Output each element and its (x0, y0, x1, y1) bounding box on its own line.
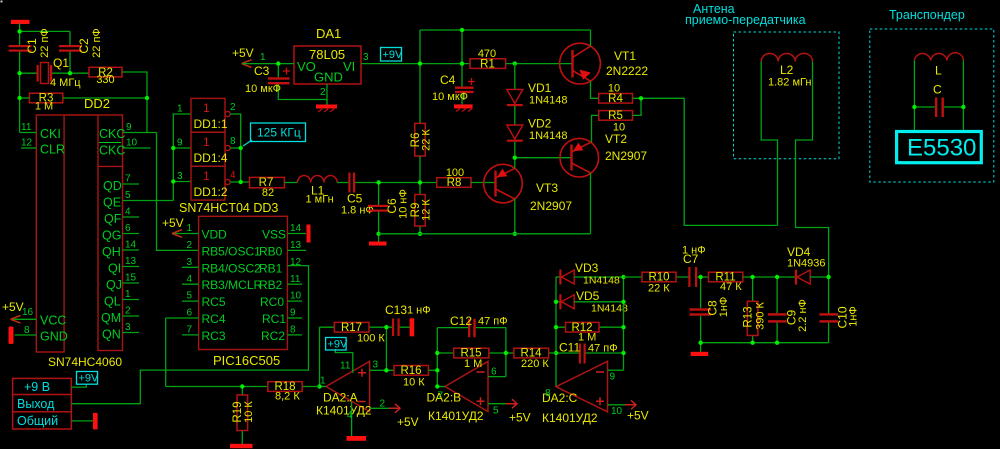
svg-text:6: 6 (187, 308, 193, 319)
svg-text:QI: QI (108, 262, 121, 276)
svg-text:22 К: 22 К (648, 283, 670, 295)
wire VT1 collector/emitter (591, 30, 599, 98)
net label +9V at DA2:A (326, 338, 348, 351)
op-amp DA2:C (542, 361, 608, 425)
resistor R18 (166, 381, 320, 402)
svg-text:SN74HCT04 DD3: SN74HCT04 DD3 (179, 201, 278, 215)
svg-text:VI: VI (343, 59, 355, 74)
wire connector common row to ground (71, 413, 97, 430)
resistor R2 (89, 67, 122, 86)
svg-text:125 КГц: 125 КГц (257, 126, 301, 140)
wire L1 to C5 (337, 182, 348, 184)
svg-text:1: 1 (260, 52, 266, 63)
svg-text:7: 7 (438, 391, 444, 402)
svg-text:1 мГн: 1 мГн (306, 194, 334, 206)
svg-text:QN: QN (102, 328, 121, 342)
capacitor C4 electrolytic (432, 64, 475, 105)
capacitor C2 (59, 28, 103, 58)
crystal Q1 (37, 56, 82, 89)
svg-text:2N2907: 2N2907 (605, 149, 647, 163)
resistor R1 (470, 48, 506, 70)
svg-text:VT3: VT3 (536, 181, 558, 195)
svg-text:13: 13 (290, 240, 302, 251)
DD2 pin QL 1 (104, 289, 139, 309)
transponder capacitor C (933, 83, 944, 118)
inverter DD1:4 (177, 132, 236, 166)
svg-text:15: 15 (125, 273, 137, 284)
net label +9V at connector (77, 372, 100, 385)
svg-text:3: 3 (187, 257, 193, 268)
connector X1 (13, 378, 72, 429)
svg-text:47 пФ: 47 пФ (478, 316, 508, 328)
svg-text:2: 2 (380, 399, 386, 410)
svg-text:10 К: 10 К (243, 401, 255, 423)
node DD1 output junctions (171, 146, 243, 184)
PIC pin 9 RC1 (262, 308, 302, 326)
PIC pin 8 RC2 (261, 325, 302, 343)
diode VD4 1N4936 (787, 245, 829, 285)
svg-text:QE: QE (103, 196, 121, 210)
wire connector +9V row (71, 384, 86, 387)
svg-text:Q1: Q1 (53, 56, 69, 70)
DA2:C pin 9 input (608, 370, 624, 382)
svg-text:8: 8 (545, 388, 551, 399)
svg-text:22 пФ: 22 пФ (39, 28, 51, 58)
svg-text:C: C (933, 83, 942, 97)
DD2 pin GND 8 with ground bar (9, 325, 68, 344)
svg-text:QH: QH (102, 245, 121, 259)
svg-text:DA2:A: DA2:A (323, 391, 358, 405)
DD2 pin QJ 15 (106, 273, 139, 293)
DD2 pin QG 6 (102, 223, 139, 243)
node R19 junction (240, 384, 244, 388)
svg-text:100 К: 100 К (357, 333, 385, 345)
chip E5530 (897, 132, 982, 163)
resistor R4 (599, 83, 633, 106)
transistor VT2 2N2907 (560, 132, 647, 177)
node C3 junction (276, 61, 280, 65)
svg-text:1: 1 (203, 135, 210, 149)
svg-text:C2: C2 (77, 38, 91, 54)
PIC pin 10 RC0 (260, 291, 302, 309)
svg-text:CLR: CLR (40, 143, 65, 157)
DA2:B pin 5 input with +5V (488, 399, 531, 424)
svg-text:PIC16C505: PIC16C505 (213, 353, 280, 368)
svg-text:R13: R13 (743, 306, 755, 327)
svg-text:C1: C1 (25, 38, 39, 54)
svg-text:RC1: RC1 (262, 312, 286, 326)
DD2 pin QF 4 (104, 207, 139, 227)
svg-text:К1401УД2: К1401УД2 (316, 404, 372, 418)
wire R2 to DD2 pin9 (122, 72, 147, 133)
wire crystal row (20, 72, 89, 74)
svg-text:9: 9 (290, 308, 296, 319)
svg-text:2: 2 (320, 87, 326, 98)
svg-text:VSS: VSS (262, 228, 286, 242)
svg-text:приемо-передатчика: приемо-передатчика (685, 13, 806, 27)
antenna dashed box (734, 32, 840, 159)
DA2:A pin 11 power (335, 349, 353, 373)
wire DA1 VI to +9V rail (361, 63, 470, 65)
svg-text:1.82 мГн: 1.82 мГн (768, 77, 811, 89)
svg-text:VD1: VD1 (528, 81, 552, 95)
ground C6 (369, 242, 387, 246)
svg-text:C13: C13 (385, 303, 407, 317)
svg-text:CKC: CKC (99, 127, 125, 141)
wire R7 to L1 (284, 182, 297, 184)
svg-text:SN74HC4060: SN74HC4060 (48, 355, 122, 369)
svg-text:VT2: VT2 (605, 132, 627, 146)
resistor R9 (410, 183, 433, 234)
wire detector bottom rail (701, 343, 829, 352)
svg-text:DA2:B: DA2:B (427, 391, 462, 405)
label antenna title (685, 2, 806, 27)
inverter DD1:1 (177, 98, 236, 132)
svg-text:4: 4 (187, 274, 193, 285)
capacitor C1 (9, 28, 51, 58)
svg-text:CKC: CKC (99, 144, 125, 158)
resistor R3 (29, 93, 62, 113)
transistor VT3 2N2907 (484, 164, 573, 213)
resistor R16 (394, 365, 428, 389)
svg-text:220 К: 220 К (521, 358, 549, 370)
svg-text:1: 1 (187, 223, 193, 234)
svg-text:4: 4 (230, 170, 236, 181)
svg-text:11: 11 (21, 122, 32, 133)
svg-text:9: 9 (610, 372, 616, 383)
wire DA2:B feedback rails (437, 328, 506, 387)
DD2 pin CKI 11 (20, 122, 61, 141)
resistor R17 (320, 322, 393, 345)
transistor VT1 2N2222 (560, 43, 649, 84)
PIC pin 2 RB5/OSC1 (187, 240, 262, 258)
IC DD3 PIC16C505 (199, 216, 288, 368)
svg-text:1 нФ: 1 нФ (407, 305, 431, 317)
PIC pin 6 RC4 (166, 308, 226, 326)
svg-text:1N4936: 1N4936 (787, 258, 826, 270)
svg-text:1: 1 (177, 104, 183, 115)
svg-text:5: 5 (125, 190, 131, 201)
svg-text:QD: QD (103, 179, 122, 193)
wire VT2 emitter/collector (591, 115, 599, 233)
inductor L1 (298, 175, 338, 205)
node transponder junctions (912, 105, 965, 109)
svg-text:10 К: 10 К (403, 377, 425, 389)
wire row to R8 (420, 182, 437, 184)
node DA2:B junctions (435, 351, 508, 389)
svg-text:VD2: VD2 (528, 117, 552, 131)
wire transponder loop (914, 61, 963, 132)
DA2:B pin 6 input (488, 367, 506, 378)
svg-text:1 нФ: 1 нФ (682, 245, 706, 257)
capacitor C12 (450, 314, 508, 337)
inverter DD1:2 (177, 166, 236, 200)
svg-text:+9V: +9V (383, 49, 404, 61)
capacitor C6 (368, 183, 410, 243)
svg-text:+9V: +9V (79, 373, 100, 385)
svg-text:12 К: 12 К (421, 199, 433, 221)
svg-text:DA1: DA1 (316, 26, 341, 41)
svg-text:QL: QL (104, 295, 121, 309)
wire RC4 to R18 (165, 318, 167, 387)
svg-text:К1401УД2: К1401УД2 (428, 409, 484, 423)
svg-text:RC4: RC4 (202, 312, 226, 326)
svg-text:2: 2 (187, 240, 193, 251)
PIC pin 3 RB4/OSC2 (182, 257, 261, 275)
node detector junctions (698, 275, 830, 345)
svg-text:330: 330 (96, 74, 114, 86)
wire R6 bottom to row (419, 156, 421, 183)
svg-text:1N4148: 1N4148 (583, 275, 620, 287)
svg-text:2.2 нФ: 2.2 нФ (797, 299, 809, 332)
PIC pin 5 RC5 (182, 291, 226, 309)
svg-text:6: 6 (125, 223, 131, 234)
diode VD1 1N4148 (507, 64, 568, 125)
PIC pin 11 RB2 (259, 274, 302, 292)
capacitor C5 (341, 173, 374, 217)
svg-text:VCC: VCC (40, 314, 66, 328)
svg-text:12: 12 (21, 138, 33, 149)
svg-text:1нФ: 1нФ (848, 306, 860, 327)
svg-text:VDD: VDD (202, 228, 228, 242)
resistor R19 with ground (230, 387, 255, 449)
diode VD5 1N4148 (556, 289, 628, 315)
capacitor C9 (768, 277, 809, 343)
wire R8 to VT3 base (471, 182, 495, 184)
svg-text:RC3: RC3 (202, 329, 226, 343)
svg-text:GND: GND (314, 70, 343, 85)
resistor R5 (599, 110, 633, 133)
svg-text:8,2 К: 8,2 К (275, 391, 300, 403)
svg-text:R8: R8 (447, 177, 462, 189)
svg-text:10: 10 (608, 83, 620, 95)
svg-text:RB0: RB0 (259, 244, 283, 258)
capacitor C8 (690, 277, 731, 343)
svg-text:10: 10 (126, 138, 138, 149)
DA1 +5V arrow pin 1 (232, 46, 294, 67)
voltage regulator DA1 78L05 (294, 26, 361, 85)
svg-text:VD3: VD3 (575, 261, 599, 275)
wire transmitter bottom rail (379, 233, 591, 235)
svg-text:Общий: Общий (17, 414, 58, 428)
diode VD2 1N4148 (507, 117, 568, 158)
wire antenna loop (761, 62, 828, 314)
svg-text:5: 5 (493, 406, 499, 417)
node DA2:C rail junctions (554, 275, 626, 355)
svg-text:47 К: 47 К (720, 281, 742, 293)
resistor R11 (709, 272, 743, 293)
resistor R6 (410, 123, 433, 156)
svg-text:5: 5 (187, 291, 193, 302)
wire VT3 emitter/collector (514, 158, 516, 234)
wire CKO to PIC OSC1 (157, 133, 199, 251)
svg-text:9: 9 (177, 138, 183, 149)
svg-text:3: 3 (125, 322, 131, 333)
resistor R8 (437, 167, 471, 189)
svg-text:7: 7 (125, 174, 131, 185)
svg-text:22 К: 22 К (421, 129, 433, 151)
wire VT2 base row (515, 157, 572, 159)
PIC pin 4 RB3/MCLR (182, 274, 263, 292)
PIC pin 13 RB0 (259, 240, 306, 258)
diode VD3 1N4148 (556, 261, 624, 287)
DA2:A pin 2 input with +5V (370, 399, 419, 430)
DD2 pin QI 13 (108, 256, 139, 276)
svg-text:RB5/OSC1: RB5/OSC1 (202, 244, 262, 258)
svg-text:E5530: E5530 (907, 135, 976, 162)
svg-text:3: 3 (363, 52, 369, 63)
svg-text:DD1:1: DD1:1 (194, 117, 228, 131)
DD2 pin CKO- 10 (99, 138, 151, 158)
svg-text:1: 1 (203, 101, 210, 115)
capacitor C10 (820, 306, 860, 343)
node rail junctions (418, 28, 517, 66)
svg-text:1 М: 1 М (35, 101, 53, 113)
svg-text:22 пФ: 22 пФ (91, 28, 103, 58)
svg-text:C3: C3 (254, 64, 270, 78)
wire top +9V rail (420, 30, 591, 123)
svg-text:10: 10 (611, 406, 623, 417)
svg-text:10: 10 (290, 291, 302, 302)
svg-text:13: 13 (125, 256, 137, 267)
svg-text:8: 8 (230, 136, 236, 147)
svg-text:1N4148: 1N4148 (529, 95, 568, 107)
PIC pin 7 RC3 (182, 325, 226, 343)
svg-text:2N2222: 2N2222 (606, 64, 648, 78)
wire R4/R5 to antenna (633, 98, 778, 225)
svg-text:RB4/OSC2: RB4/OSC2 (202, 261, 262, 275)
svg-text:+9 В: +9 В (24, 380, 50, 394)
ground top-left (11, 20, 30, 24)
svg-text:C4: C4 (440, 73, 456, 87)
svg-text:RC0: RC0 (260, 295, 284, 309)
DA2:A pin 3 input (370, 360, 394, 371)
svg-text:8: 8 (290, 325, 296, 336)
svg-text:390 К: 390 К (755, 302, 767, 330)
svg-text:10 мкФ: 10 мкФ (245, 83, 281, 95)
PIC pin 1 VDD with +5V arrow (162, 216, 227, 242)
svg-text:+5V: +5V (509, 411, 531, 425)
svg-text:QM: QM (101, 311, 121, 325)
DD2 pin QN 3 (102, 322, 139, 342)
DD2 pin CLR 12 (21, 138, 65, 157)
wire DD1 outputs joined (230, 114, 249, 182)
svg-text:+5V: +5V (627, 409, 649, 423)
svg-text:7: 7 (187, 325, 193, 336)
svg-text:DD2: DD2 (84, 96, 110, 111)
wire connector output row to PIC RB1 (71, 266, 308, 404)
svg-text:+5V: +5V (397, 415, 419, 429)
svg-text:10 мкФ: 10 мкФ (432, 91, 468, 103)
wire DD1 input taps (173, 148, 191, 182)
svg-text:DD1:2: DD1:2 (194, 185, 228, 199)
DD2 pin QE 5 (103, 190, 173, 210)
capacitor C7 (682, 245, 709, 288)
svg-text:R4: R4 (608, 93, 623, 105)
svg-text:L2: L2 (780, 63, 794, 77)
svg-text:RB3/MCLR: RB3/MCLR (202, 278, 263, 292)
svg-text:1: 1 (203, 169, 210, 183)
svg-text:10: 10 (613, 122, 625, 134)
svg-text:Транспондер: Транспондер (889, 8, 965, 22)
node DA2:A junctions (317, 325, 388, 389)
svg-text:QG: QG (102, 229, 121, 243)
wire DA2:C feedback rails (556, 277, 624, 387)
resistor R13 (743, 277, 767, 343)
node R6/R9 junctions (418, 180, 422, 236)
node VD2/VT3 junction (513, 156, 517, 237)
resistor R14 (506, 348, 556, 370)
wire pin3 node vertical (385, 327, 387, 370)
wire R11 to VD4 (743, 276, 796, 278)
DA2:B pin 7 output (437, 387, 445, 402)
svg-text:2: 2 (125, 306, 131, 317)
node C5/C6 junctions (376, 180, 380, 236)
wire QE to DD1 inputs (173, 114, 191, 201)
svg-text:Выход: Выход (17, 397, 55, 411)
wire R16 to DA2:B node (428, 369, 437, 371)
svg-text:+5V: +5V (2, 300, 24, 314)
svg-text:10 нФ: 10 нФ (398, 189, 410, 219)
wire C5 to junction (355, 182, 420, 184)
transponder coil L (914, 53, 963, 78)
svg-text:R16: R16 (400, 365, 421, 377)
svg-text:GND: GND (40, 330, 68, 344)
svg-text:1N4148: 1N4148 (529, 130, 568, 142)
node osc junctions (17, 29, 149, 100)
svg-text:4: 4 (347, 410, 353, 421)
wire DA2:A output node vertical (319, 327, 321, 386)
transponder dashed box (870, 29, 994, 182)
svg-text:6: 6 (491, 367, 497, 378)
svg-text:1: 1 (125, 289, 131, 300)
svg-text:82: 82 (262, 187, 274, 199)
svg-text:VO: VO (297, 59, 316, 74)
svg-text:C5: C5 (347, 192, 363, 206)
inductor L2 coil (761, 53, 812, 88)
op-amp DA2:A (316, 361, 372, 417)
svg-text:RC2: RC2 (261, 329, 285, 343)
resistor R12 (556, 322, 624, 344)
DD2 pin CKO 9 (99, 122, 157, 141)
svg-text:+5V: +5V (162, 216, 184, 230)
PIC pin 12 RB1 (259, 257, 302, 275)
svg-text:R5: R5 (608, 110, 623, 122)
DD2 pin QH 14 (102, 240, 139, 260)
svg-text:4 МГц: 4 МГц (50, 77, 81, 89)
net label +9V at DA1 (381, 48, 404, 62)
svg-text:11: 11 (290, 274, 301, 285)
wire R1 to VT1 base (506, 63, 573, 65)
callout 125 KHz (243, 123, 306, 146)
svg-text:11: 11 (340, 361, 351, 372)
DA2:A pin 1 output (320, 376, 327, 387)
DD2 pin VCC 16 with +5V arrow (2, 300, 66, 328)
svg-text:16: 16 (22, 307, 34, 318)
capacitor C3 electrolytic (245, 64, 327, 100)
svg-text:9: 9 (126, 122, 132, 133)
DA1 GND pin 2 to ground (316, 84, 337, 112)
svg-text:QF: QF (104, 212, 122, 226)
svg-text:3: 3 (177, 171, 183, 182)
resistor R10 (624, 272, 689, 295)
svg-text:470: 470 (478, 48, 496, 60)
IC DD2 SN74HC4060 (36, 96, 122, 369)
svg-text:R1: R1 (480, 58, 495, 70)
PIC pin 14 VSS with ground (262, 223, 311, 243)
wire R3 row to osc vertical (20, 97, 147, 99)
op-amp DA2:B (427, 361, 489, 423)
